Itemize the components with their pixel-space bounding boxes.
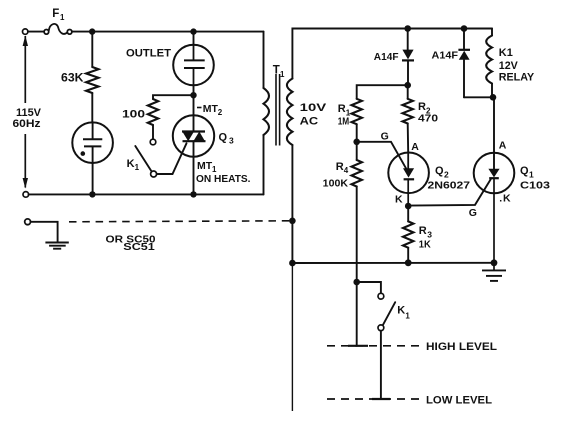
resistor R3 1K	[403, 221, 413, 247]
svg-text:G: G	[381, 131, 389, 143]
wire	[407, 206, 409, 221]
wire (high level electrode)	[356, 282, 358, 346]
wire (gate of Q3)	[157, 143, 187, 174]
electrode tip (high)	[348, 345, 368, 347]
resistor 63K	[86, 67, 98, 93]
node	[89, 191, 95, 197]
svg-text:Q: Q	[219, 131, 228, 143]
wire	[407, 29, 409, 51]
wire	[407, 124, 410, 153]
wire (ground bus)	[292, 262, 494, 264]
node (level probe junction)	[353, 279, 360, 286]
wire	[493, 97, 495, 169]
svg-text:12V: 12V	[499, 60, 519, 72]
wire	[356, 124, 358, 142]
svg-text:1: 1	[280, 70, 285, 79]
resistor R1 1M	[352, 99, 362, 124]
svg-text:K: K	[127, 158, 135, 170]
svg-text:SC51: SC51	[123, 241, 155, 253]
contact (fixed, K1)	[150, 139, 156, 145]
svg-text:F: F	[52, 8, 59, 20]
svg-text:100: 100	[122, 109, 145, 121]
svg-text:A: A	[499, 140, 507, 152]
terminal (chassis ref)	[25, 219, 31, 225]
transformer T1 core	[276, 74, 280, 146]
node (R1/R2 top junction)	[404, 82, 411, 89]
wire	[463, 60, 465, 98]
wire	[407, 85, 409, 99]
wire	[491, 29, 493, 36]
wire (bottom bus left section)	[29, 193, 264, 195]
diode CR1 A14F	[402, 50, 414, 61]
transistor Q2 2N6027	[388, 153, 429, 207]
wire	[407, 60, 409, 85]
wire	[91, 32, 93, 67]
svg-text:HIGH LEVEL: HIGH LEVEL	[426, 341, 497, 353]
svg-text:1M: 1M	[338, 115, 350, 127]
node	[461, 25, 468, 32]
node	[404, 25, 411, 32]
svg-text:A14F: A14F	[374, 51, 399, 63]
high level line (dashed)	[327, 345, 421, 347]
svg-text:R: R	[336, 161, 344, 173]
contact (K1 float switch bottom)	[378, 325, 384, 331]
node	[190, 191, 196, 197]
svg-text:2N6027: 2N6027	[428, 180, 471, 192]
wire (gate of Q2)	[357, 142, 406, 169]
wire (Q2 K to Q1 gate)	[408, 179, 491, 205]
svg-text:MT: MT	[197, 160, 213, 172]
node	[491, 259, 498, 266]
ground (left)	[45, 243, 68, 249]
terminal (line input bottom)	[23, 192, 29, 198]
node	[289, 260, 296, 267]
node (fuse / 63K junction)	[89, 28, 95, 34]
svg-text:4: 4	[344, 166, 349, 175]
svg-text:1: 1	[405, 311, 410, 320]
wire	[193, 85, 195, 98]
svg-text:OUTLET: OUTLET	[126, 48, 171, 60]
svg-text:ON HEATS.: ON HEATS.	[196, 173, 251, 185]
outlet (receptacle symbol)	[173, 45, 214, 86]
svg-text:AC: AC	[300, 116, 319, 128]
svg-text:T: T	[273, 65, 280, 77]
wire	[193, 98, 195, 131]
wire	[356, 187, 358, 283]
wire	[491, 84, 493, 97]
wire	[357, 85, 408, 99]
node (Q2 cathode node)	[405, 203, 412, 210]
wire	[291, 145, 293, 263]
relay coil K1	[486, 36, 492, 84]
wire	[263, 135, 265, 194]
fuse F1	[44, 24, 72, 34]
resistor 100	[148, 99, 158, 125]
svg-text:Q: Q	[520, 165, 529, 177]
electrode tip (low)	[372, 398, 390, 400]
wire	[91, 93, 93, 123]
svg-text:K: K	[397, 305, 405, 317]
wire	[193, 32, 195, 45]
contact (K1 float switch top)	[378, 293, 384, 299]
svg-text:63K: 63K	[61, 72, 84, 84]
neon lamp	[72, 122, 113, 163]
wire (top bus left section)	[72, 31, 264, 33]
transformer T1 primary	[264, 88, 270, 135]
switch K1 (relay contact arm)	[135, 146, 151, 172]
node (MT2 / 100 ohm junction)	[190, 92, 196, 98]
svg-text:1: 1	[60, 13, 65, 22]
node (outlet branch junction)	[190, 28, 196, 34]
diode CR2 A14F (flyback)	[458, 50, 470, 60]
ground (right)	[482, 263, 506, 281]
wire	[463, 29, 465, 50]
thyristor Q1 C103	[474, 153, 515, 263]
svg-text:2: 2	[218, 108, 223, 117]
svg-text:100K: 100K	[323, 177, 349, 189]
low level line (dashed)	[327, 398, 421, 400]
source 115V 60Hz (arrowed line)	[23, 36, 28, 189]
svg-text:R: R	[419, 225, 427, 237]
svg-text:G: G	[469, 207, 477, 219]
svg-text:K1: K1	[499, 47, 513, 59]
svg-text:60Hz: 60Hz	[13, 118, 42, 130]
node	[405, 259, 412, 266]
wire	[464, 96, 494, 98]
switch K1 (float contact arm)	[383, 302, 395, 325]
transformer T1 secondary	[287, 79, 293, 146]
wire	[92, 163, 94, 195]
svg-text:C103: C103	[520, 180, 550, 192]
svg-text:1: 1	[135, 163, 140, 172]
svg-text:1: 1	[529, 169, 534, 179]
svg-text:A: A	[411, 141, 419, 153]
terminal (line input top)	[23, 29, 28, 34]
wire	[193, 141, 195, 194]
svg-text:MT: MT	[203, 103, 219, 115]
svg-text:2: 2	[444, 169, 449, 179]
wire	[263, 32, 265, 88]
wire	[356, 142, 358, 160]
wire	[292, 29, 492, 79]
node (relay / Q1 anode junction)	[490, 94, 497, 101]
resistor R2 470	[403, 99, 413, 124]
node (R1/R4/gate junction)	[353, 139, 360, 146]
node (dashed link junction)	[289, 218, 296, 225]
wire (low level electrode)	[380, 331, 382, 399]
svg-text:K: K	[503, 192, 511, 204]
contact (pivot, K1)	[151, 171, 157, 177]
wire (common electrode)	[291, 263, 293, 411]
wire	[152, 125, 154, 139]
svg-text:A14F: A14F	[432, 50, 459, 62]
svg-text:10V: 10V	[300, 102, 327, 114]
svg-text:.: .	[499, 192, 502, 204]
svg-text:R: R	[338, 103, 346, 115]
svg-text:3: 3	[229, 135, 234, 145]
resistor R4 100K	[352, 160, 362, 187]
svg-text:470: 470	[418, 112, 438, 124]
triac Q3	[173, 115, 214, 156]
wire	[31, 222, 58, 243]
label MT2	[197, 107, 202, 109]
wire	[153, 95, 194, 99]
wire	[407, 248, 409, 263]
svg-text:Q: Q	[435, 165, 444, 177]
wire (dashed link to common)	[69, 221, 292, 222]
svg-text:RELAY: RELAY	[499, 72, 535, 84]
svg-text:K: K	[395, 194, 403, 206]
wire	[28, 31, 44, 33]
svg-text:R: R	[418, 101, 426, 113]
svg-text:1K: 1K	[419, 239, 431, 251]
wire	[357, 282, 381, 293]
svg-text:LOW LEVEL: LOW LEVEL	[426, 394, 492, 406]
